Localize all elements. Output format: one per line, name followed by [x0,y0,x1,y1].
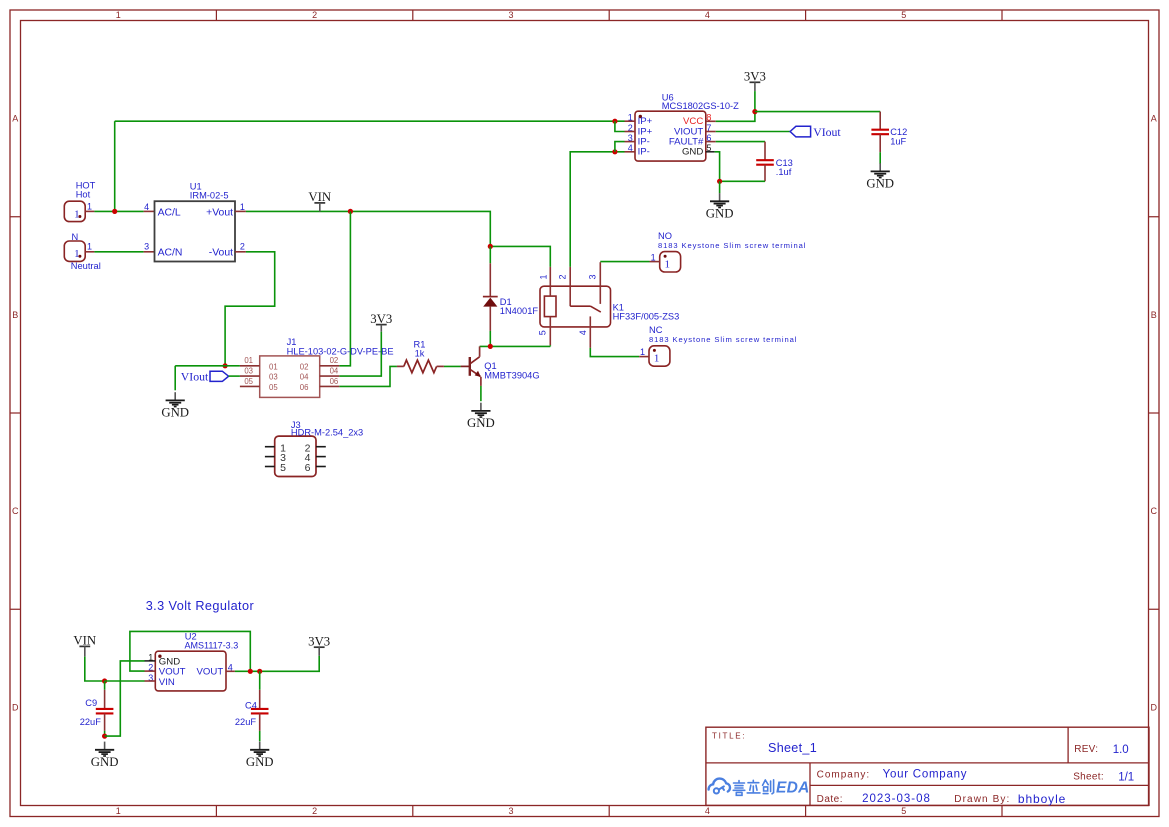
svg-text:3: 3 [587,274,597,279]
power flag 3V3 (regulator output) [308,634,330,655]
svg-text:B: B [1151,310,1157,320]
power flag VIN [308,190,331,212]
wire emitter to gnd [480,386,482,401]
node VIN junction [348,209,353,214]
svg-text:1k: 1k [415,349,425,359]
svg-text:3: 3 [508,10,513,20]
wire Q1 collector to K1 coil- [480,345,551,346]
svg-text:N: N [72,232,79,242]
wire VIN to K1 coil and D1 [490,246,550,267]
node J1 pin01 junction [223,363,228,368]
capacitor C13 .1uf [756,142,793,182]
svg-text:HLE-103-02-G-DV-PE-BE: HLE-103-02-G-DV-PE-BE [287,346,394,356]
diode D1 1N4001F [483,246,538,346]
wire J1 pin06 to R1 [339,366,397,386]
svg-text:1: 1 [87,202,92,212]
svg-text:1/1: 1/1 [1118,771,1134,783]
net flag VIout (left side) [181,370,229,384]
wire U2 VOUT to 3V3 [235,656,319,672]
wire 3V3 stem to VCC rail [754,91,756,112]
svg-text:1: 1 [87,241,92,251]
node D1 top junction [488,244,493,249]
svg-text:+Vout: +Vout [206,207,233,218]
svg-text:5: 5 [901,806,906,816]
wire R1 to Q1 base [444,365,469,367]
ground under C9 [91,742,119,770]
node U6 pin1 junction [612,119,617,124]
svg-text:VIN: VIN [308,190,331,204]
terminal NO 8183 Keystone [651,231,807,272]
svg-text:IP-: IP- [638,147,650,158]
wire VIN rail [246,211,490,246]
svg-text:D: D [1151,703,1158,713]
svg-text:HF33F/005-ZS3: HF33F/005-ZS3 [613,312,680,322]
wire K1 NC contact to terminal [590,348,649,357]
svg-text:C: C [1151,506,1158,516]
svg-text:02: 02 [300,362,309,371]
wire branch to U6 pin2 [615,121,625,131]
JLCEDA logo [709,779,810,797]
svg-text:3.3 Volt Regulator: 3.3 Volt Regulator [146,599,255,613]
svg-text:AMS1117-3.3: AMS1117-3.3 [185,640,239,650]
current sensor U6 MCS1802GS-10-Z [628,92,739,161]
wire U1 -Vout to J1 pin 01 [225,252,275,366]
svg-text:3V3: 3V3 [744,70,766,84]
svg-text:GND: GND [866,177,894,191]
svg-text:TITLE:: TITLE: [712,731,746,740]
svg-text:Sheet_1: Sheet_1 [768,741,817,755]
svg-text:3V3: 3V3 [308,634,330,648]
svg-text:1: 1 [240,202,245,212]
svg-text:.1uf: .1uf [776,167,792,177]
node gnd junction U6 [717,179,722,184]
wire VIN down to J1 pin 02 [339,211,350,365]
ground under C12 [866,163,894,191]
svg-text:Company:: Company: [817,769,871,780]
power flag 3V3 (U6) [744,70,766,92]
wire flag to J1 pin03 [229,375,240,377]
wire C12 to gnd [879,152,881,164]
svg-text:MCS1802GS-10-Z: MCS1802GS-10-Z [662,101,739,111]
svg-text:3: 3 [144,242,149,252]
svg-text:4: 4 [705,10,710,20]
node U6 pin4 junction [612,149,617,154]
wire C13 bottom to gnd node [720,180,765,182]
svg-text:Neutral: Neutral [71,261,101,271]
svg-text:1uF: 1uF [890,137,906,147]
wire HOT to U1 AC/L [85,210,154,212]
svg-text:2: 2 [312,806,317,816]
svg-text:VIN: VIN [73,634,96,648]
svg-text:Hot: Hot [76,190,91,200]
AC-DC module U1 IRM-02-5 [144,182,245,262]
svg-text:1N4001F: 1N4001F [500,306,539,316]
svg-text:GND: GND [246,755,274,769]
svg-text:06: 06 [330,377,339,386]
svg-text:1: 1 [651,252,656,262]
transistor Q1 MMBT3904G [470,346,540,386]
resistor R1 1k [397,340,444,373]
svg-text:VIout: VIout [181,370,209,384]
svg-text:04: 04 [300,373,309,382]
node C9 bottom junction [102,734,107,739]
svg-text:5: 5 [538,330,548,335]
power flag 3V3 (J1) [370,312,392,332]
capacitor C9 22uF [80,681,114,736]
svg-text:GND: GND [161,406,189,420]
capacitor C4 22uF [235,671,269,741]
wire HOT bus to U6 IP+ [115,120,625,122]
header J1 HLE-103-02-G-DV-PE-BE [240,337,394,397]
svg-text:VIN: VIN [159,677,175,688]
wire junction to J1 pin01 [225,365,240,367]
svg-text:8183 Keystone Slim screw termi: 8183 Keystone Slim screw terminal [649,335,797,344]
ground under U6 [706,193,734,221]
svg-text:Your Company: Your Company [883,769,968,781]
svg-text:5: 5 [280,462,286,474]
svg-text:IRM-02-5: IRM-02-5 [190,191,229,201]
svg-text:05: 05 [269,383,278,392]
svg-text:Date:: Date: [817,794,843,805]
node VIN/C9 junction [102,678,107,683]
svg-text:1.0: 1.0 [1113,744,1129,756]
svg-text:4: 4 [578,330,588,335]
svg-text:B: B [12,310,18,320]
svg-text:5: 5 [901,10,906,20]
wire 3V3 to J1 pin04 [339,332,381,376]
node collector/D1 junction [488,344,493,349]
svg-text:4: 4 [705,806,710,816]
svg-text:06: 06 [300,383,309,392]
wire U2 GND pin1 loop [105,661,145,736]
terminal NC 8183 Keystone [640,325,797,366]
power flag VIN (regulator input) [73,634,96,657]
svg-text:Drawn By:: Drawn By: [954,794,1010,805]
svg-text:NC: NC [649,325,663,335]
svg-text:-Vout: -Vout [209,248,233,259]
svg-text:22uF: 22uF [235,717,257,727]
wire K1 NO contact to terminal [600,261,659,263]
svg-text:C4: C4 [245,700,257,710]
svg-text:D: D [12,703,19,713]
svg-text:1: 1 [665,258,671,270]
svg-text:AC/L: AC/L [158,207,181,218]
svg-text:03: 03 [244,367,253,376]
wire junction to gnd [175,365,225,367]
svg-text:1: 1 [74,208,80,220]
svg-text:01: 01 [244,356,253,365]
svg-text:03: 03 [269,373,278,382]
header J3 HDR-M-2.54_2x3 [265,420,363,477]
svg-text:MMBT3904G: MMBT3904G [484,370,539,380]
wire N to U1 AC/N [85,251,154,253]
node VOUT junction 1 [248,669,253,674]
svg-text:GND: GND [467,416,495,430]
svg-text:C: C [12,506,19,516]
ground under C4 [246,742,274,770]
node junction HOT/AC_L [112,209,117,214]
svg-text:2: 2 [312,10,317,20]
pin 2 -Vout stub [235,251,246,253]
capacitor C12 1uF [871,112,907,153]
svg-text:2: 2 [240,242,245,252]
regulator U2 AMS1117-3.3 [145,631,239,691]
svg-text:AC/N: AC/N [158,248,183,259]
wire U2 VOUT pin2 feedback loop [130,631,250,671]
svg-text:Sheet:: Sheet: [1073,772,1104,783]
svg-text:GND: GND [682,147,703,158]
svg-text:02: 02 [330,356,339,365]
svg-text:NO: NO [658,231,672,241]
svg-text:VOUT: VOUT [197,667,224,678]
node VOUT junction 2 (C4) [257,669,262,674]
svg-text:3V3: 3V3 [370,312,392,326]
wire U6 FAULT# to C13 [716,141,765,143]
net flag VIout (right side) [790,125,841,139]
svg-text:2023-03-08: 2023-03-08 [862,793,931,805]
wire to U2 VIN pin3 [105,680,145,682]
svg-text:22uF: 22uF [80,717,102,727]
terminal P1 HOT [64,181,95,222]
svg-text:C9: C9 [85,698,97,708]
svg-text:HDR-M-2.54_2x3: HDR-M-2.54_2x3 [291,427,363,437]
wire 3V3 to C12 [755,111,880,113]
svg-text:A: A [12,114,18,124]
terminal P2 N (Neutral) [64,232,100,271]
svg-text:3: 3 [508,806,513,816]
svg-text:8183 Keystone Slim screw termi: 8183 Keystone Slim screw terminal [658,241,806,250]
ground left of J1 [161,392,189,420]
wire gnd node down [719,181,721,193]
relay K1 HF33F/005-ZS3 [538,262,680,348]
svg-text:EDA: EDA [776,779,810,796]
svg-text:REV:: REV: [1074,744,1098,755]
svg-text:05: 05 [244,377,253,386]
wire branch to U6 pin3 [615,142,625,152]
wire U6 VCC to 3V3 [716,112,755,122]
ground under Q1 [467,403,495,431]
svg-text:1: 1 [640,347,645,357]
svg-text:1: 1 [74,248,80,260]
svg-text:bhboyle: bhboyle [1018,792,1066,806]
svg-text:VIout: VIout [813,125,841,139]
svg-text:6: 6 [305,462,311,474]
svg-text:1: 1 [654,353,660,365]
pin 1 +Vout stub [235,210,246,212]
svg-text:1: 1 [116,10,121,20]
wire K1 common to U6 IP- [570,152,624,267]
wire VIN input [85,657,105,681]
svg-text:1: 1 [116,806,121,816]
wire U6 VIOUT to flag [716,131,790,133]
svg-text:2: 2 [558,274,568,279]
svg-text:GND: GND [91,755,119,769]
svg-text:A: A [1151,114,1157,124]
svg-text:GND: GND [706,207,734,221]
svg-text:1: 1 [538,274,548,279]
svg-text:01: 01 [269,362,278,371]
svg-text:4: 4 [144,202,149,212]
U6 pin stubs [625,121,716,152]
node 3V3/C12 junction [752,109,757,114]
title block [706,727,1149,806]
wire HOT up to IP+ bus [114,121,116,211]
wire U6 GND pin to gnd node [715,152,720,182]
svg-text:04: 04 [330,367,339,376]
